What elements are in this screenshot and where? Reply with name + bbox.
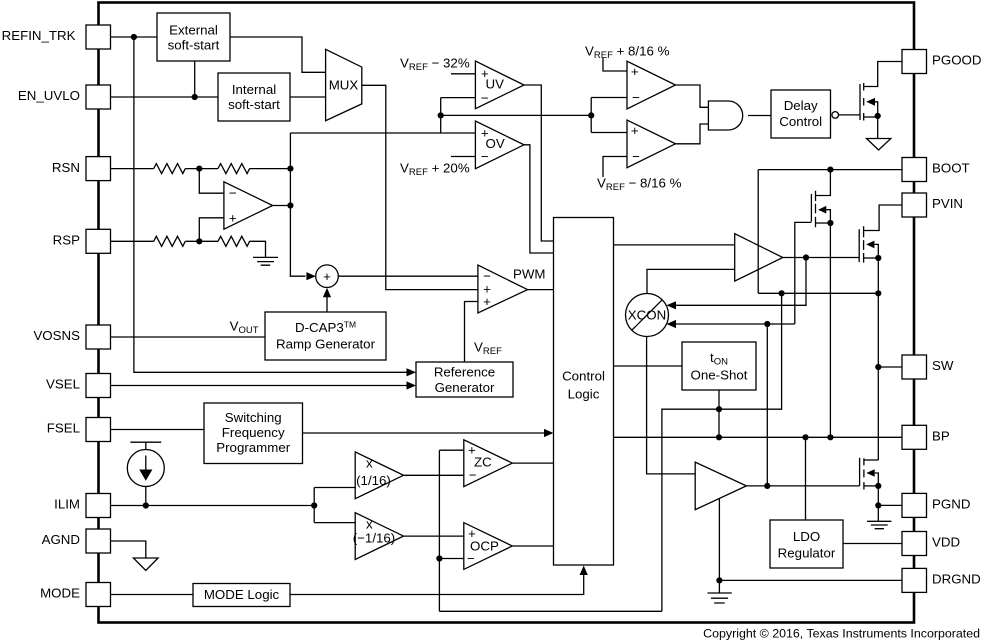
pin SW: [902, 355, 954, 379]
pin MODE: [40, 583, 110, 607]
driver low-side gate driver: [695, 462, 746, 510]
wire Control Logic to tON One-Shot: [614, 365, 683, 367]
comparator ZC: [464, 440, 513, 487]
svg-text:VREF − 32%: VREF − 32%: [400, 56, 470, 74]
driver high-side gate driver: [735, 234, 783, 281]
svg-text:VREF − 8/16 %: VREF − 8/16 %: [597, 176, 682, 194]
comparator UV: [475, 61, 524, 109]
svg-text:+: +: [323, 269, 331, 284]
pin PGND: [902, 493, 970, 517]
ground PGOOD MOSFET source (triangle): [867, 139, 891, 151]
svg-text:−: −: [469, 467, 477, 482]
svg-text:soft-start: soft-start: [168, 37, 220, 52]
comparator PGOOD upper: [627, 61, 676, 109]
comparator OCP: [464, 523, 513, 570]
pin FSEL: [47, 418, 111, 442]
pin ILIM: [54, 494, 110, 518]
wire External soft-start bottom to EN_UVLO node: [194, 61, 196, 97]
svg-text:PGOOD: PGOOD: [932, 53, 982, 68]
amplifier x(1/16): [355, 452, 403, 499]
wire XCON lower line branch to low-side driver output: [764, 324, 770, 489]
wire LDO output riser to BP rail: [805, 437, 807, 520]
wire SW node to SW pin: [878, 366, 902, 368]
svg-text:OV: OV: [486, 136, 505, 151]
svg-text:Frequency: Frequency: [222, 425, 285, 440]
wire RSP node to op-amp plus input: [199, 218, 224, 242]
svg-text:External: External: [169, 22, 218, 37]
pin REFIN_TRK: [2, 25, 111, 49]
svg-text:ZC: ZC: [474, 455, 492, 470]
wire MODE to MODE Logic: [111, 594, 194, 596]
svg-text:RSN: RSN: [52, 160, 80, 175]
wire XCON top to high-side driver input: [647, 269, 735, 293]
ground DRGND (earth): [708, 580, 732, 603]
comparator PWM: [478, 265, 528, 313]
wire SW sense branch to tON loop: [662, 293, 782, 611]
block External soft-start: [157, 13, 230, 61]
svg-text:Ramp Generator: Ramp Generator: [276, 336, 376, 351]
gate AND: [708, 101, 742, 130]
wire feedback main line: [441, 114, 592, 116]
pin VDD: [902, 532, 960, 556]
wire RSP to sense network: [111, 238, 266, 257]
wire REFIN down to Reference Generator with arrowhead: [134, 37, 416, 376]
block tON One-Shot: [682, 342, 756, 390]
pin RSP: [53, 229, 111, 253]
svg-text:OCP: OCP: [470, 539, 499, 554]
svg-text:Control: Control: [562, 368, 605, 383]
wire ILIM line: [111, 502, 318, 508]
svg-text:(−1/16): (−1/16): [353, 531, 396, 546]
block Reference Generator: [416, 362, 513, 397]
wire bootstrap MOSFET source to BP rail: [827, 223, 833, 440]
transistor high-side power MOSFET: [859, 205, 902, 263]
svg-text:Reference: Reference: [434, 364, 495, 379]
block Delay Control: [771, 90, 831, 138]
comparator PGOOD lower: [627, 120, 676, 168]
svg-text:x: x: [366, 456, 373, 471]
node summing junction: [316, 265, 339, 288]
block D-CAP3 Ramp Generator: [265, 312, 386, 360]
wire VOSNS to D-CAP3 Ramp Generator: [111, 336, 266, 338]
pin AGND: [42, 529, 111, 553]
wire UV comparator plus input: [451, 73, 475, 75]
wire OV output to Control Logic: [524, 145, 554, 253]
svg-text:Switching: Switching: [225, 410, 282, 425]
svg-text:x: x: [366, 517, 373, 532]
wire SW node vertical: [875, 258, 881, 460]
resistor RSP input: [154, 236, 186, 246]
svg-text:−: −: [481, 90, 489, 105]
wire high-side driver output to HS MOSFET gate: [783, 254, 859, 260]
wire OV comparator minus input: [451, 156, 475, 158]
svg-text:VDD: VDD: [932, 535, 960, 550]
pin DRGND: [902, 568, 981, 592]
svg-text:+: +: [229, 210, 237, 225]
wire tON One-Shot bottom to BP rail: [716, 390, 722, 440]
wire SW sense to ZC plus and OCP minus: [436, 450, 662, 611]
wire VSEL to Reference Generator with arrowhead: [111, 381, 417, 389]
wire D-CAP3 ramp to summing node with arrowhead: [323, 288, 331, 312]
wire summing node to PWM comparator minus input: [338, 275, 478, 277]
wire LS MOSFET source to PGND pin: [875, 486, 902, 521]
svg-text:VSEL: VSEL: [46, 377, 80, 392]
wire ILIM branch to scaling amplifiers: [314, 488, 355, 523]
wire MUX output to PWM comparator plus input: [362, 85, 478, 289]
wire ZC output to Control Logic: [512, 462, 553, 464]
svg-text:VREF + 20%: VREF + 20%: [400, 161, 470, 179]
svg-text:BOOT: BOOT: [932, 161, 970, 176]
op-amp remote sense amplifier: [224, 182, 273, 229]
svg-text:−: −: [632, 90, 640, 105]
wire OCP output to Control Logic: [512, 545, 553, 547]
wire REFIN_TRK to External soft-start: [111, 34, 158, 40]
svg-text:+: +: [483, 294, 491, 309]
inverter bubble on Delay Control output: [832, 112, 839, 119]
pin PGOOD: [902, 50, 982, 74]
svg-text:VREF: VREF: [474, 340, 502, 358]
wire BOOT riser bottom to SW node: [758, 290, 881, 296]
svg-text:Generator: Generator: [435, 380, 495, 395]
wire x(1/16) output to ZC minus input: [404, 474, 464, 476]
svg-text:SW: SW: [932, 358, 954, 373]
svg-text:ILIM: ILIM: [54, 497, 80, 512]
wire feedback branch to PGOOD comparators: [588, 98, 627, 133]
svg-text:DRGND: DRGND: [932, 572, 981, 587]
svg-text:MUX: MUX: [329, 78, 359, 93]
svg-text:LDO: LDO: [793, 529, 820, 544]
pin BP: [902, 425, 950, 449]
svg-text:−: −: [229, 186, 237, 201]
svg-text:UV: UV: [486, 77, 505, 92]
wire RSN to sense network: [111, 166, 294, 172]
svg-text:−: −: [481, 149, 489, 164]
svg-text:AGND: AGND: [42, 532, 80, 547]
svg-text:PVIN: PVIN: [932, 196, 963, 211]
wire Control Logic to high-side driver input: [614, 244, 735, 246]
ground AGND (triangle): [133, 558, 158, 571]
wire feedback branch to UV minus and OV plus: [290, 98, 475, 133]
svg-text:MODE: MODE: [40, 586, 80, 601]
svg-text:VREF + 8/16 %: VREF + 8/16 %: [585, 44, 670, 62]
wire driver output to XCON upper input with arrowhead: [667, 258, 807, 310]
transistor PGOOD pulldown MOSFET: [860, 62, 902, 139]
wire UV output to Control Logic: [524, 85, 554, 241]
svg-text:Internal: Internal: [232, 82, 276, 97]
wire AND gate to Delay Control: [748, 115, 771, 117]
svg-text:VOUT: VOUT: [230, 319, 259, 337]
ground RSP network (earth): [253, 257, 278, 265]
svg-text:VOSNS: VOSNS: [33, 328, 80, 343]
wire PWM comparator output to Control Logic: [528, 289, 554, 291]
wire bootstrap MOSFET gate from XCON lower line: [667, 222, 812, 328]
svg-text:REFIN_TRK: REFIN_TRK: [2, 28, 76, 43]
svg-text:(1/16): (1/16): [356, 473, 391, 488]
wire Delay Control to PGOOD MOSFET gate: [839, 114, 861, 116]
wire feedback bus vertical to summing node: [290, 133, 316, 280]
wire PGOOD upper comparator plus input: [603, 58, 627, 71]
svg-text:Delay: Delay: [784, 98, 818, 113]
wire x(-1/16) output to OCP plus input: [404, 535, 464, 537]
wire External soft-start output to MUX: [230, 37, 326, 72]
block LDO Regulator: [770, 520, 843, 568]
wire PGOOD lower comparator output to AND gate: [676, 124, 709, 144]
wire low-side driver return to DRGND: [716, 499, 902, 584]
node XCON: [626, 294, 669, 337]
pin PVIN: [902, 193, 963, 217]
svg-text:Regulator: Regulator: [778, 545, 836, 560]
pin VSEL: [46, 374, 111, 398]
svg-text:−: −: [632, 149, 640, 164]
svg-text:BP: BP: [932, 429, 950, 444]
wire XCON bottom to low-side driver input: [647, 337, 696, 474]
current source ILIM bias: [127, 442, 164, 505]
svg-text:+: +: [631, 64, 639, 79]
wire PGOOD lower comparator minus input: [603, 157, 627, 178]
block Internal soft-start: [218, 73, 290, 121]
wire BP rail: [614, 434, 903, 440]
block MODE Logic: [193, 584, 290, 607]
wire FSEL to Switching Frequency Programmer: [111, 429, 205, 431]
svg-text:EN_UVLO: EN_UVLO: [18, 88, 80, 103]
pin VOSNS: [33, 325, 110, 349]
wire Switching Frequency Programmer to Control Logic with arrowhead: [303, 429, 554, 437]
transistor low-side power MOSFET: [860, 458, 882, 490]
svg-text:XCON: XCON: [628, 308, 666, 323]
svg-text:One-Shot: One-Shot: [691, 367, 748, 382]
wire BOOT riser: [758, 167, 902, 294]
wire LDO Regulator to VDD pin: [843, 543, 902, 545]
svg-text:MODE Logic: MODE Logic: [204, 587, 280, 602]
svg-text:Programmer: Programmer: [216, 440, 290, 455]
block Switching Frequency Programmer: [204, 403, 303, 464]
resistor RSP termination: [218, 236, 250, 246]
ground power ground (earth): [867, 521, 891, 528]
pin BOOT: [902, 158, 970, 182]
svg-text:PWM: PWM: [513, 266, 546, 281]
svg-text:RSP: RSP: [53, 233, 80, 248]
svg-text:Logic: Logic: [568, 386, 600, 401]
resistor RSN feedback: [218, 164, 250, 174]
svg-text:PGND: PGND: [932, 497, 970, 512]
wire low-side driver output to LS MOSFET gate: [746, 485, 859, 487]
svg-text:Copyright © 2016, Texas Instru: Copyright © 2016, Texas Instruments Inco…: [703, 627, 980, 641]
wire op-amp output to feedback bus: [273, 202, 294, 208]
svg-text:+: +: [631, 123, 639, 138]
pin RSN: [52, 157, 111, 181]
wire MODE Logic to Control Logic with arrowhead: [290, 566, 588, 595]
wire VREF to PWM comparator second plus input: [465, 302, 478, 363]
wire AGND to analog ground: [111, 541, 146, 558]
wire Internal soft-start output to MUX: [290, 96, 326, 98]
resistor RSN input: [154, 164, 186, 174]
svg-text:FSEL: FSEL: [47, 421, 80, 436]
svg-text:Control: Control: [779, 114, 822, 129]
wire PGOOD upper comparator output to AND gate: [676, 85, 709, 107]
transistor bootstrap switch MOSFET: [811, 170, 833, 228]
block Control Logic: [554, 218, 614, 566]
mux MUX: [326, 49, 362, 120]
svg-text:soft-start: soft-start: [228, 97, 280, 112]
wire RSN node to op-amp minus input: [199, 169, 224, 194]
amplifier x(-1/16): [353, 513, 404, 560]
wire EN_UVLO to Internal soft-start: [111, 94, 219, 100]
pin EN_UVLO: [18, 85, 111, 109]
comparator OV: [475, 121, 524, 169]
